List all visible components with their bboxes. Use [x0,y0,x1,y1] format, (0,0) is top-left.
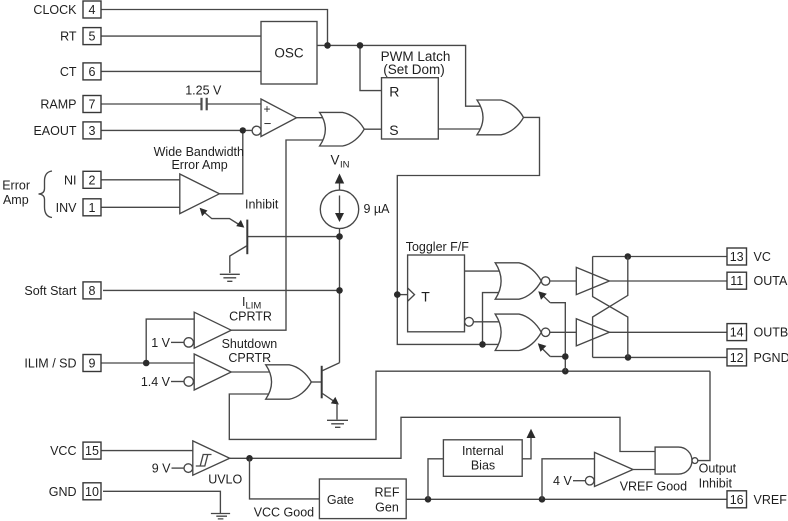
svg-text:Amp: Amp [3,193,29,207]
svg-text:Internal: Internal [462,444,504,458]
svg-text:Soft Start: Soft Start [24,284,77,298]
wire OSC output branch to latch R input [360,45,381,90]
pin CT 6 [60,63,101,80]
svg-text:T: T [421,289,430,305]
wire VREF to internal bias [428,459,443,500]
svg-text:S: S [389,122,398,138]
junction lower arrow node [562,353,569,360]
junction NOR input node [479,341,486,348]
svg-text:Error Amp: Error Amp [171,158,227,172]
PWM latch U1 [381,49,451,139]
wire PWM OR output to latch S input [364,128,381,130]
driver A [576,267,609,294]
wire 9uA current source down to shutdown transistor collector [339,229,341,363]
svg-text:UVLO: UVLO [208,473,242,487]
wire latch output to big OR bottom input [438,128,483,130]
svg-text:8: 8 [89,284,96,298]
pin PGND 12 [727,349,788,366]
pin INV 1 [56,199,101,216]
NOR gate A [495,263,550,299]
junction base node [336,233,343,240]
shutdown OR gate [266,365,312,399]
pin RAMP 7 [40,96,101,113]
wire OSC output to big OR top input [317,45,483,106]
svg-text:1: 1 [89,201,96,215]
svg-text:OUTB: OUTB [754,326,788,340]
wire lower arrow tail [550,356,565,358]
junction T node [394,291,401,298]
wire inhibit transistor base [247,236,339,238]
wire arrows vertical [550,303,565,372]
ground at Q2 [327,420,348,427]
svg-text:Output: Output [699,461,737,475]
pin CLOCK 4 [33,1,101,18]
wire error amp output to EAOUT node [219,130,242,193]
transistor Q1 inhibit [230,220,248,273]
svg-text:Inhibit: Inhibit [699,476,733,490]
svg-text:CPRTR: CPRTR [228,351,271,365]
wire CLOCK to OSC output node [101,10,328,46]
junction VC node [625,253,632,260]
junction VCC good node [246,455,253,462]
pin EAOUT 3 [33,122,101,139]
svg-text:CLOCK: CLOCK [33,3,77,17]
svg-text:Toggler F/F: Toggler F/F [406,240,470,254]
junction R branch node [357,42,364,49]
svg-text:Shutdown: Shutdown [222,337,278,351]
wire lower NOR to driver B [550,331,577,333]
gate REF gen block [319,479,406,519]
wire RT to OSC [101,35,261,37]
wire EAOUT to comparator inverting input [101,129,252,131]
svg-text:9 V: 9 V [152,462,171,476]
pin VREF 16 [727,491,787,508]
svg-text:7: 7 [89,98,96,112]
pin OUTB 14 [727,324,788,341]
svg-text:RT: RT [60,30,77,44]
svg-text:EAOUT: EAOUT [33,124,76,138]
wire NI to error amp [101,179,180,181]
inhibit arrow [200,198,279,228]
junction output inhibit arrows node [562,368,569,375]
wire ILIM/SD to shutdown comparator [101,362,194,364]
arrow to upper NOR bubble [538,291,550,303]
OSC block [261,22,317,85]
svg-text:CPRTR: CPRTR [229,310,272,324]
error amp U2 [154,145,244,214]
wire VCC good to gate block [250,458,320,499]
junction CLOCK node [324,42,331,49]
comparator ILIM CPRTR [151,295,272,350]
wire branch to upper NOR bottom input [483,293,503,345]
svg-text:V: V [331,153,340,168]
ground at GND pin [211,514,230,519]
svg-text:4: 4 [89,3,96,17]
svg-text:13: 13 [730,250,744,264]
svg-text:11: 11 [730,274,743,288]
wire INV to error amp [101,206,180,208]
wire VC rail [593,256,727,258]
capacitor 1.25 V [185,84,222,111]
wire output inhibit line to shutdown OR bottom input [229,371,710,439]
svg-text:REF: REF [375,486,400,500]
current source 9uA [320,190,390,228]
svg-text:1.25 V: 1.25 V [185,84,222,98]
junction ILIM branch node [143,360,150,367]
wire big OR output loop to toggler [397,117,539,344]
svg-text:Gen: Gen [375,501,399,515]
wire CT to OSC [101,70,261,72]
PWM OR gate [320,112,365,146]
pin ILIM/SD 9 [24,355,101,372]
wire OUTB [609,331,727,333]
wire driver rails crossing [593,257,628,358]
svg-text:12: 12 [730,351,744,365]
internal bias arrow [522,429,535,459]
arrow to lower NOR bubble [538,343,550,356]
svg-text:Error: Error [2,178,30,192]
svg-text:Wide Bandwidth: Wide Bandwidth [154,145,244,159]
wire upper NOR to driver A [550,280,577,282]
NAND gate output inhibit [655,447,737,490]
junction VREF good node [539,496,546,503]
junction internal bias node [425,496,432,503]
svg-text:Inhibit: Inhibit [245,198,279,212]
transistor Q2 shutdown [322,363,340,420]
wire REF gen output to VREF pin [406,498,727,500]
svg-text:VCC: VCC [50,444,76,458]
wire NAND output to output inhibit line [698,371,710,460]
svg-text:(Set Dom): (Set Dom) [383,62,445,77]
svg-text:16: 16 [730,493,744,507]
VIN label and arrow [331,153,350,191]
svg-text:10: 10 [85,485,99,499]
svg-text:CT: CT [60,65,77,79]
svg-text:3: 3 [89,124,96,138]
internal bias block [443,440,522,477]
junction PGND node [625,354,632,361]
svg-text:1.4 V: 1.4 V [141,375,171,389]
PWM comparator [252,99,296,137]
wire OUTA [609,280,727,282]
pin RT 5 [60,28,101,45]
big OR gate [477,100,524,135]
junction EAOUT node [240,127,246,133]
Error Amp pin group label with brace [2,171,52,218]
pin Soft Start 8 [24,282,101,299]
svg-text:Bias: Bias [471,459,495,473]
wire toggler Q to upper NOR [465,270,503,272]
svg-text:VC: VC [754,250,771,264]
svg-text:4 V: 4 V [553,474,572,488]
wire GND to ground [103,491,220,513]
svg-text:INV: INV [56,201,78,215]
driver B [576,319,609,346]
svg-text:2: 2 [89,173,96,187]
pin NI 2 [64,171,101,188]
svg-text:14: 14 [730,326,744,340]
wire shutdown comparator output to OR [231,371,270,373]
svg-text:6: 6 [89,65,96,79]
svg-text:R: R [389,84,399,100]
svg-text:VREF: VREF [754,493,788,507]
wire ILIM comparator output to PWM OR bottom input [231,140,330,330]
pin OUTA 11 [727,272,788,289]
pin VC 13 [727,248,771,265]
svg-text:9 µA: 9 µA [364,202,391,216]
wire toggler Qbar to lower NOR [473,321,502,323]
wire VREF to 4V comparator [542,459,595,500]
comparator Shutdown CPRTR [141,337,277,390]
svg-text:VREF Good: VREF Good [620,480,687,494]
svg-text:−: − [264,116,272,131]
ground at Q1 [220,274,240,281]
svg-text:OSC: OSC [274,46,304,61]
pin VCC 15 [50,442,101,459]
wire VCC to UVLO [101,450,193,452]
wire UVLO output to NAND top input [230,417,655,458]
UVLO comparator [152,441,243,487]
svg-text:OUTA: OUTA [754,274,788,288]
NOR gate B [495,314,550,350]
svg-text:1 V: 1 V [151,336,170,350]
svg-text:ILIM / SD: ILIM / SD [24,357,76,371]
svg-text:Gate: Gate [327,493,354,507]
junction soft start node [336,287,343,294]
svg-text:PGND: PGND [754,351,788,365]
wire RAMP to PWM comparator [101,103,261,105]
wire branch to ILIM comparator top input [146,319,194,363]
wire soft start to 9uA node [103,289,340,291]
toggler flip flop U3 [406,240,474,332]
wire 4V comparator output to NAND bottom input [633,469,655,471]
wire branch to toggler T input [397,294,407,296]
comparator VREF good [553,452,687,493]
wire comparator output to PWM OR gate [297,117,331,119]
svg-text:15: 15 [85,444,99,458]
svg-text:5: 5 [89,30,96,44]
wire PGND rail [593,356,727,358]
pin GND 10 [49,483,101,500]
svg-text:NI: NI [64,173,77,187]
svg-text:RAMP: RAMP [40,98,76,112]
svg-text:9: 9 [89,357,96,371]
wire shutdown OR output to transistor base [311,381,321,383]
svg-text:GND: GND [49,485,77,499]
svg-text:IN: IN [340,160,350,171]
svg-text:VCC Good: VCC Good [254,505,314,519]
svg-text:+: + [264,102,271,116]
